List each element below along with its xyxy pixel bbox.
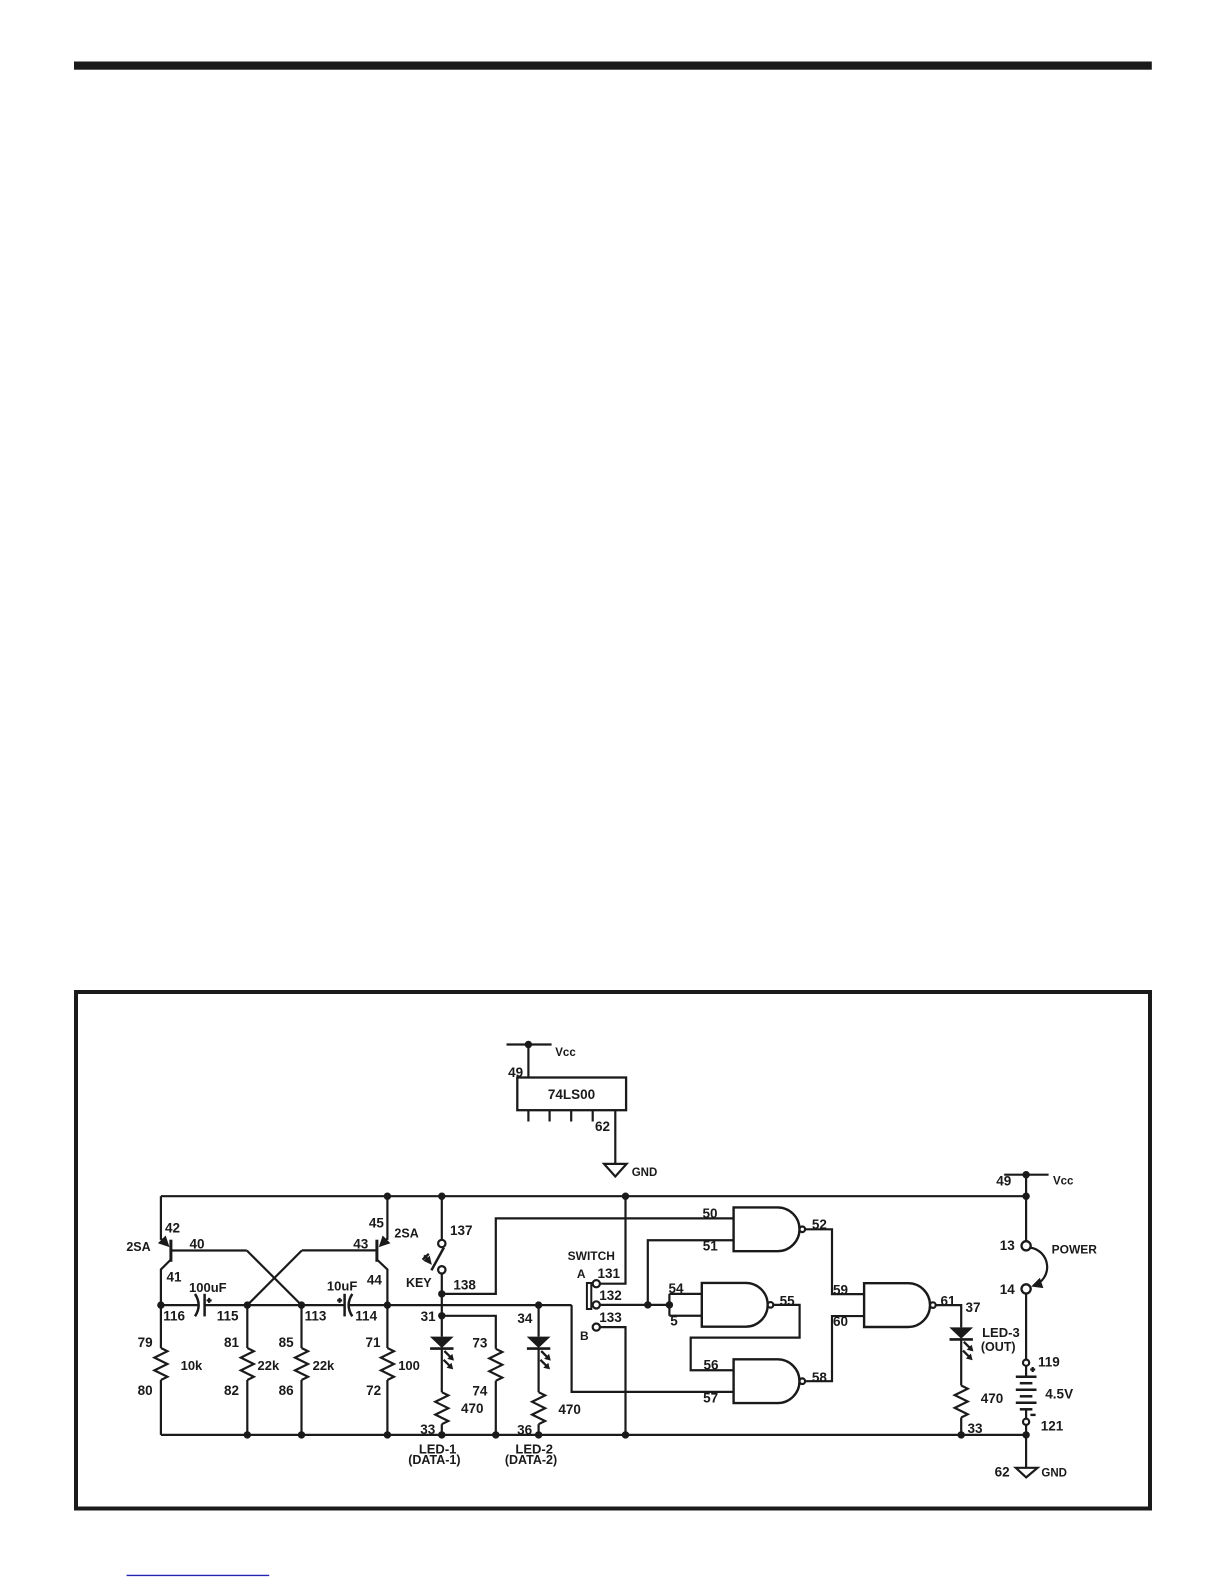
svg-text:40: 40 (189, 1237, 204, 1252)
NAND gate U1A output bubble (800, 1227, 806, 1233)
svg-text:116: 116 (163, 1309, 185, 1324)
transistor Q2 base bar (375, 1240, 378, 1262)
junction node 138 wire (438, 1290, 445, 1297)
resistor (LED-1 470) body (435, 1392, 448, 1424)
svg-text:43: 43 (353, 1237, 369, 1252)
svg-text:79: 79 (138, 1335, 153, 1350)
capacitor C2 plus sign (337, 1299, 342, 1301)
transistor Q2 emitter arrow (381, 1239, 388, 1246)
svg-text:51: 51 (703, 1239, 719, 1254)
switch A contact 131 (593, 1280, 600, 1287)
svg-text:LED-3: LED-3 (982, 1325, 1020, 1340)
wire gate U1B input 54 stub (669, 1293, 701, 1295)
svg-text:4.5V: 4.5V (1045, 1387, 1073, 1402)
capacitor C2 10uF curved plate (349, 1294, 353, 1316)
LED-2 cathode bar (527, 1347, 550, 1350)
wire battery to ground rail and GND symbol (1025, 1425, 1027, 1468)
svg-text:82: 82 (224, 1383, 239, 1398)
svg-text:10k: 10k (181, 1358, 203, 1373)
LED-2 anode wire from node 34 (537, 1305, 539, 1337)
svg-text:5: 5 (670, 1314, 678, 1329)
wire node 31 to resistor R5 (442, 1316, 496, 1349)
LED-3 cathode bar (950, 1338, 973, 1341)
NAND gate U1C output bubble (800, 1378, 806, 1384)
resistor (LED-3 470) body (955, 1386, 968, 1418)
NAND gate U1B output bubble (768, 1302, 774, 1308)
svg-text:85: 85 (279, 1335, 295, 1350)
svg-text:113: 113 (305, 1309, 327, 1324)
wire Q2 collector to gate input 57 (572, 1305, 734, 1392)
svg-text:80: 80 (138, 1383, 153, 1398)
svg-text:22k: 22k (313, 1358, 335, 1373)
transistor Q2 collector lead (377, 1260, 388, 1306)
switch A contact 132 (593, 1301, 600, 1308)
LED-1 light arrow 1 (444, 1351, 450, 1357)
LED-1 to resistor wire (441, 1349, 443, 1393)
svg-text:KEY: KEY (406, 1276, 432, 1290)
wire U1C output 58 to gate input 60 (805, 1316, 864, 1381)
junction bottom rail / R2 (244, 1431, 251, 1438)
svg-text:14: 14 (1000, 1282, 1016, 1297)
KEY switch contact 137 (438, 1240, 445, 1247)
svg-text:61: 61 (940, 1293, 956, 1308)
svg-text:37: 37 (965, 1300, 980, 1315)
svg-text:(DATA-2): (DATA-2) (505, 1453, 557, 1467)
junction bottom rail / R5 (492, 1431, 499, 1438)
junction top rail / Q2 emitter (384, 1193, 391, 1200)
svg-text:33: 33 (967, 1421, 983, 1436)
wire node 116 row (161, 1304, 199, 1306)
IC U1 74LS00 body (517, 1078, 626, 1111)
svg-text:33: 33 (420, 1422, 436, 1437)
capacitor C1 plus sign (207, 1299, 212, 1301)
svg-text:22k: 22k (258, 1358, 280, 1373)
svg-text:50: 50 (702, 1206, 717, 1221)
junction bottom rail / switch-B return (622, 1431, 629, 1438)
svg-text:100uF: 100uF (189, 1280, 227, 1295)
resistor R4 top lead (386, 1305, 388, 1348)
POWER switch arc (1030, 1248, 1047, 1286)
LED-1 diode triangle (430, 1337, 454, 1348)
junction node 34 (LED-2 tap) (535, 1301, 542, 1308)
LED-3 light arrow 2 (963, 1351, 969, 1357)
wire switch B contact 133 to ground rail (600, 1327, 626, 1435)
wire Vcc stub (power column) (1004, 1174, 1048, 1176)
resistor R1 bottom lead (160, 1380, 162, 1435)
NAND gate U1C body (734, 1359, 800, 1403)
resistor R5 bottom lead (495, 1381, 497, 1435)
transistor Q1 base bar (169, 1240, 172, 1262)
resistor R2 22k body (241, 1348, 254, 1380)
svg-text:36: 36 (517, 1423, 533, 1438)
battery BT1 bottom lead (1025, 1409, 1027, 1418)
svg-text:73: 73 (472, 1335, 488, 1350)
transistor Q2 base wire (302, 1249, 377, 1251)
svg-text:42: 42 (165, 1220, 180, 1235)
transistor Q1 emitter arrow (161, 1239, 168, 1246)
svg-text:115: 115 (217, 1309, 239, 1324)
svg-text:470: 470 (558, 1402, 581, 1417)
battery plus sign (1030, 1368, 1035, 1370)
svg-text:114: 114 (355, 1309, 377, 1324)
resistor R5 470 body (489, 1349, 502, 1381)
junction node 31 (438, 1312, 445, 1319)
svg-text:100: 100 (398, 1358, 420, 1373)
wire node 114 row to Q-bar column (349, 1304, 572, 1306)
resistor R3 top lead (300, 1305, 302, 1348)
junction on U1 Vcc wire (525, 1041, 532, 1048)
resistor R4 100 body (381, 1348, 394, 1380)
svg-text:133: 133 (599, 1310, 622, 1325)
LED-2 light arrow 2 (540, 1360, 546, 1366)
svg-text:62: 62 (995, 1464, 1010, 1479)
battery BT1 plate 4 (short) (1020, 1395, 1033, 1398)
U1 unconnected pin stub 4 (592, 1110, 594, 1121)
ground symbol (battery) (1016, 1468, 1038, 1478)
NAND gate U1D body (864, 1283, 930, 1327)
schematic frame (76, 992, 1150, 1509)
svg-text:58: 58 (812, 1370, 828, 1385)
svg-text:72: 72 (366, 1383, 381, 1398)
svg-text:60: 60 (833, 1314, 848, 1329)
transistor Q1 2SA emitter wire (160, 1196, 162, 1240)
svg-text:31: 31 (421, 1309, 437, 1324)
svg-text:A: A (577, 1267, 586, 1281)
LED-3 to resistor wire (960, 1339, 962, 1385)
LED-2 diode triangle (527, 1337, 551, 1348)
junction bottom rail / battery column (1022, 1431, 1029, 1438)
svg-text:(OUT): (OUT) (981, 1340, 1016, 1354)
svg-text:81: 81 (224, 1335, 240, 1350)
wire Vcc to POWER switch contact 13 (1025, 1175, 1027, 1242)
resistor R2 top lead (246, 1305, 248, 1348)
junction bottom rail node 33 (LED-3) (958, 1431, 965, 1438)
battery BT1 plate 2 (short) (1020, 1382, 1033, 1385)
junction 132 row / 51 riser (644, 1301, 651, 1308)
svg-text:121: 121 (1041, 1419, 1064, 1434)
wire U1B output 55 to gate input 56 (691, 1305, 800, 1370)
junction top rail / power column (1022, 1193, 1029, 1200)
svg-text:B: B (580, 1329, 589, 1343)
svg-text:74LS00: 74LS00 (548, 1087, 595, 1102)
svg-text:GND: GND (1041, 1467, 1067, 1479)
wire ground bottom rail (161, 1434, 1026, 1436)
resistor (LED-2 470) body (532, 1392, 545, 1424)
LED-1 cathode bar (430, 1347, 453, 1350)
KEY switch lever (431, 1248, 444, 1271)
battery BT1 plate 6 (short) (1020, 1408, 1033, 1411)
battery BT1 plate 3 (long) (1016, 1388, 1037, 1391)
ground symbol (U1) (604, 1164, 627, 1177)
wire switch A common 132 row (600, 1304, 670, 1306)
wire Vcc feed of U1 (507, 1043, 552, 1045)
POWER switch contact 14 (1022, 1284, 1031, 1293)
resistor R1 top lead (160, 1305, 162, 1348)
capacitor C1 100uF curved plate (195, 1294, 199, 1316)
junction 132 row / gate tie (666, 1301, 673, 1308)
svg-text:49: 49 (508, 1065, 523, 1080)
NAND gate U1B body (702, 1283, 768, 1327)
KEY switch contact 138 (438, 1266, 445, 1273)
wire gate U1B input 5 stub (669, 1315, 701, 1317)
svg-text:52: 52 (812, 1217, 827, 1232)
svg-text:137: 137 (450, 1223, 473, 1238)
resistor R3 bottom lead (300, 1380, 302, 1435)
svg-text:59: 59 (833, 1282, 848, 1297)
svg-text:62: 62 (595, 1119, 610, 1134)
junction bottom rail node 36 (LED-2) (535, 1431, 542, 1438)
svg-text:54: 54 (669, 1281, 685, 1296)
battery BT1 top lead (1025, 1366, 1027, 1377)
junction Q2 collector row (384, 1301, 391, 1308)
battery BT1 plate 5 (long) (1016, 1401, 1037, 1404)
wire U1A output 52 to gate input 59 (805, 1229, 864, 1294)
svg-text:55: 55 (780, 1293, 796, 1308)
NAND gate U1A body (734, 1207, 800, 1251)
battery BT1 plate 1 (long) (1016, 1375, 1037, 1378)
junction bottom rail / R4 (384, 1431, 391, 1438)
transistor Q1 collector lead (161, 1260, 171, 1306)
svg-text:10uF: 10uF (327, 1278, 357, 1293)
resistor R1 10k body (154, 1348, 167, 1380)
junction Vcc stub (1022, 1171, 1029, 1178)
switch A contact 133 (593, 1324, 600, 1331)
svg-text:470: 470 (461, 1401, 484, 1416)
svg-text:74: 74 (472, 1383, 488, 1398)
svg-text:45: 45 (369, 1216, 385, 1231)
svg-text:57: 57 (703, 1391, 718, 1406)
KEY switch feed wire (441, 1196, 443, 1240)
junction node 116 (157, 1301, 164, 1308)
svg-text:2SA: 2SA (126, 1240, 150, 1254)
capacitor C2 10uF flat plate (343, 1294, 346, 1317)
transistor Q2 2SA emitter wire (386, 1196, 388, 1240)
wire node 115 row (205, 1304, 345, 1306)
wire KEY output down to LED-1 (441, 1274, 443, 1337)
top rule bar (74, 62, 1152, 70)
svg-text:(DATA-1): (DATA-1) (408, 1453, 460, 1467)
svg-text:GND: GND (632, 1167, 658, 1179)
resistor (LED-2 470) bottom lead (537, 1424, 539, 1435)
junction top rail / KEY branch (438, 1193, 445, 1200)
resistor (LED-1 470) bottom lead (441, 1424, 443, 1435)
svg-text:POWER: POWER (1052, 1243, 1098, 1257)
wire 132 to gate input 51 (648, 1240, 734, 1305)
U1 unconnected pin stub 2 (548, 1110, 550, 1121)
junction top rail / switch-A feed (622, 1193, 629, 1200)
wire U1D output 61 to LED-3 (936, 1305, 962, 1327)
svg-text:470: 470 (981, 1391, 1004, 1406)
LED-3 light arrow 1 (964, 1342, 970, 1348)
resistor R2 bottom lead (246, 1380, 248, 1435)
battery minus sign (1030, 1414, 1035, 1416)
LED-2 to resistor wire (537, 1349, 539, 1393)
svg-text:Vcc: Vcc (1053, 1176, 1074, 1188)
svg-text:44: 44 (367, 1273, 383, 1288)
svg-text:2SA: 2SA (394, 1226, 418, 1240)
svg-text:138: 138 (453, 1278, 476, 1293)
junction bottom rail / R3 (298, 1431, 305, 1438)
resistor R4 bottom lead (386, 1380, 388, 1435)
svg-text:131: 131 (598, 1266, 621, 1281)
wire cross-coupling Q1 base to node 113 (247, 1251, 302, 1306)
svg-text:34: 34 (517, 1311, 533, 1326)
svg-text:41: 41 (166, 1269, 182, 1284)
LED-3 diode triangle (949, 1327, 973, 1338)
wire Vcc top rail (161, 1195, 1026, 1197)
wire contact 14 to battery (1025, 1294, 1027, 1360)
KEY switch actuate arrow (424, 1255, 430, 1262)
svg-text:Vcc: Vcc (555, 1047, 576, 1059)
POWER switch contact 13 (1022, 1241, 1031, 1250)
svg-text:SWITCH: SWITCH (568, 1249, 615, 1263)
transistor Q1 base wire (171, 1249, 247, 1251)
junction bottom rail node 33 (LED-1) (438, 1431, 445, 1438)
resistor R3 22k body (295, 1348, 308, 1380)
wire node 138 to gate input 50 (442, 1218, 734, 1294)
svg-text:119: 119 (1038, 1354, 1060, 1369)
switch A bracket (587, 1283, 591, 1309)
resistor (LED-3 470) bottom lead (960, 1418, 962, 1435)
svg-text:132: 132 (599, 1288, 622, 1303)
battery terminal 121 (1023, 1419, 1029, 1425)
wire cross-coupling Q2 base to node 115 (247, 1250, 302, 1305)
wire U1 pin 14 to Vcc (527, 1045, 529, 1078)
hyperlink underline (127, 1574, 270, 1576)
svg-text:13: 13 (1000, 1238, 1016, 1253)
U1 unconnected pin stub 3 (570, 1110, 572, 1121)
LED-2 light arrow 1 (541, 1351, 547, 1357)
svg-text:49: 49 (996, 1173, 1011, 1188)
junction node 115 (244, 1301, 251, 1308)
wire top rail to switch A contact 131 (600, 1196, 626, 1284)
battery terminal 119 (1023, 1360, 1029, 1366)
capacitor C1 100uF flat plate (203, 1294, 206, 1317)
junction node 113 (298, 1301, 305, 1308)
gate U1B input tie bar (668, 1294, 670, 1316)
svg-text:56: 56 (703, 1357, 719, 1372)
U1 unconnected pin stub 1 (527, 1110, 529, 1121)
NAND gate U1D output bubble (930, 1302, 936, 1308)
LED-1 light arrow 2 (444, 1360, 450, 1366)
svg-text:71: 71 (365, 1335, 381, 1350)
wire U1 ground pin (614, 1110, 616, 1164)
svg-text:86: 86 (279, 1383, 295, 1398)
